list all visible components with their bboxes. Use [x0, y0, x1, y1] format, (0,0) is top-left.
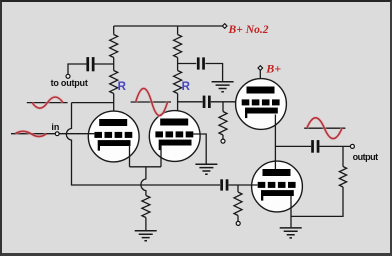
- svg-text:R: R: [118, 81, 127, 93]
- wire cathode join: [130, 166, 162, 168]
- wire in terminal to V1 grid: [59, 133, 94, 135]
- triode V2: [149, 111, 200, 162]
- wire B+ rail: [114, 25, 223, 27]
- wire plate supply V2 top lead: [177, 26, 179, 35]
- terminal in: [55, 132, 59, 136]
- terminal output: [350, 144, 354, 148]
- capacitor C5 output: [311, 140, 314, 153]
- resistor R5 grid: [234, 192, 242, 216]
- ground G2: [195, 164, 217, 174]
- ground G4: [280, 228, 302, 238]
- resistor R2a: [174, 35, 182, 58]
- wire cap C1 right lead: [94, 63, 113, 65]
- svg-text:B+ No.2: B+ No.2: [228, 23, 269, 36]
- terminal bias R5: [236, 221, 240, 225]
- wire V1 plate node tap: [72, 102, 114, 104]
- wire R4 bottom lead: [222, 135, 224, 139]
- terminal to output: [66, 74, 70, 78]
- capacitor C4 series: [220, 179, 223, 190]
- wire V4 grid resistor branch: [237, 185, 239, 192]
- wire grid-leak branch: [222, 102, 224, 112]
- wire cap C3 to V3 grid: [211, 101, 242, 103]
- resistor R3 cathode tail: [142, 196, 150, 218]
- capacitor C3: [203, 96, 206, 108]
- wire R6 bottom return: [291, 187, 343, 216]
- svg-text:in: in: [51, 122, 59, 132]
- triode V3: [236, 79, 287, 130]
- sine output signal: [307, 118, 342, 139]
- wire R5 bottom lead: [237, 216, 239, 222]
- capacitor C1: [86, 57, 89, 71]
- wire vertical with hop over input: [66, 103, 220, 185]
- sine output signal baseline: [304, 127, 345, 129]
- svg-text:R: R: [182, 81, 191, 93]
- wire V2 plate to cap C3: [178, 101, 203, 103]
- resistor R2b plate load: [174, 71, 182, 94]
- svg-text:to output: to output: [51, 78, 88, 88]
- wire R3 to ground: [145, 218, 147, 231]
- wire V2 grid to ground: [193, 134, 206, 164]
- wire cap C2 to ground: [205, 64, 222, 81]
- svg-text:B+: B+: [265, 62, 281, 76]
- wire V2 cathode lead: [160, 145, 162, 167]
- resistor R1a: [110, 35, 118, 58]
- capacitor C2: [197, 57, 200, 69]
- sine small input signal: [15, 131, 47, 136]
- terminal B+: [258, 66, 263, 71]
- triode V4: [252, 161, 303, 212]
- triode V1: [88, 111, 139, 162]
- resistor R6 output load: [339, 167, 346, 188]
- wire C4 to V4 grid: [229, 184, 258, 186]
- resistor R1b plate load: [110, 71, 118, 94]
- wire input lead: [11, 133, 55, 135]
- wire node to output cap: [275, 145, 311, 147]
- ground G3: [135, 231, 157, 241]
- sine V2 plate signal baseline: [131, 101, 171, 103]
- sine V1 plate signal baseline: [27, 102, 68, 104]
- wire V3 cathode to V4 plate: [274, 115, 276, 170]
- wire V1 cathode lead: [129, 145, 131, 167]
- wire cathode tail with hop: [141, 167, 146, 196]
- svg-text:output: output: [353, 152, 378, 162]
- terminal bias R4: [221, 139, 225, 143]
- wire V4 cathode to ground: [290, 196, 292, 227]
- ground G1: [212, 82, 234, 92]
- wire R1b to V1 plate: [113, 94, 115, 120]
- sine V2 plate signal: [136, 88, 168, 115]
- wire cap C2 left lead: [178, 63, 197, 65]
- terminal B+ No.2: [222, 24, 227, 29]
- wire plate supply V1 top lead: [113, 26, 115, 35]
- wire output resistor top lead: [342, 146, 344, 166]
- sine V1 plate signal: [32, 97, 63, 108]
- wire C5 to output terminal: [319, 145, 350, 147]
- wire R1a to R1b: [113, 58, 115, 71]
- wire cap C1 left lead: [68, 64, 86, 74]
- wire R2a to R2b: [177, 58, 179, 71]
- wire R2b to V2 plate: [177, 94, 179, 120]
- resistor R4 grid leak: [219, 112, 227, 136]
- wire B+ to V3 plate: [259, 70, 261, 87]
